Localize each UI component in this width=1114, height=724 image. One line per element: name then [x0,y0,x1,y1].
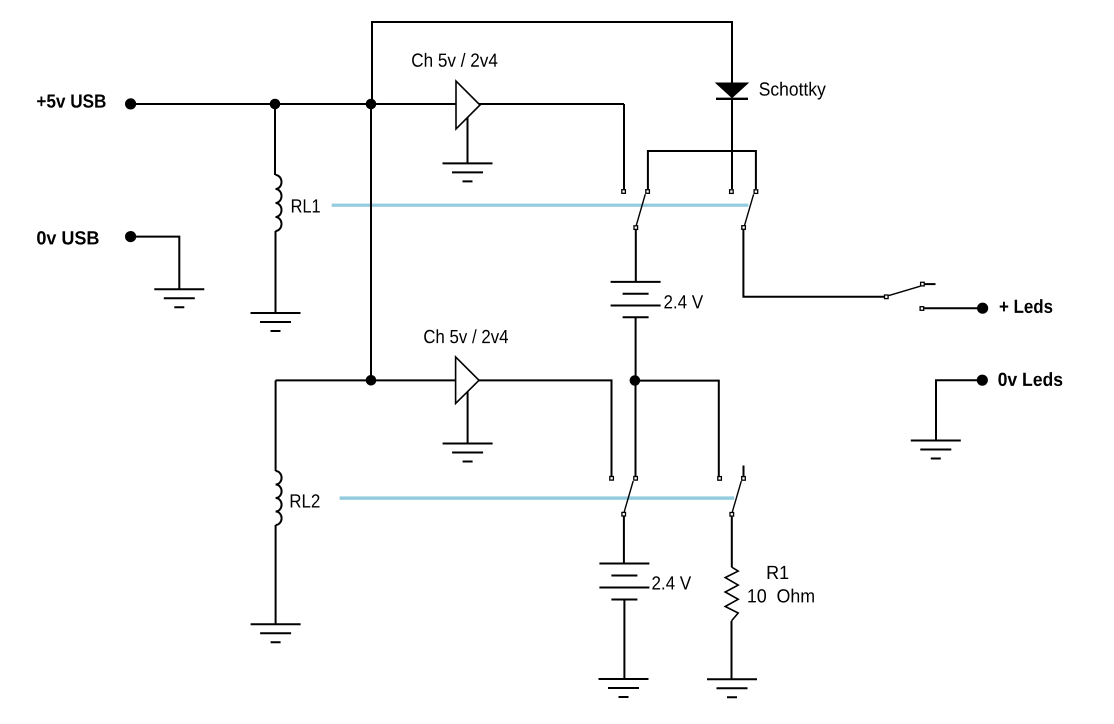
wire RL1 to ground [275,231,277,313]
wire 0v Leds to ground [936,380,977,440]
wire n-connector [648,151,756,189]
switch S3 contact left [610,477,614,481]
wire buffer2 output [479,380,612,476]
label Schottky [760,82,826,100]
wire buffer1 output corner down [623,104,625,189]
wire buffer2 input row [276,379,456,381]
wire switch S4 pivot to R1 [731,517,733,567]
label RL1 [292,199,320,212]
relay link line RL1 (blue) [332,204,749,207]
wire switch S4 stub up [743,466,745,477]
relay link line RL2 (blue) [340,496,735,499]
switch S2 contact right [754,190,758,194]
battery B2 2.4V [599,564,649,600]
switch S1 contact left [622,190,626,194]
battery B1 2.4V [611,282,661,317]
wire RL1 top drop [274,104,276,175]
ground (battery2) [599,679,649,697]
terminal 0v USB [125,231,136,242]
ground (buffer U2) [443,444,493,462]
junction node B [366,99,377,110]
switch S4 pivot [730,513,734,517]
junction node A [270,99,281,110]
wire top loop [372,22,732,104]
wire RL2 to ground [275,525,277,624]
inductor RL2 [276,471,282,525]
switch S5 pivot [885,295,889,299]
ground (R1) [707,679,757,697]
label Ch 5v / 2v4 [412,53,497,67]
junction node D [630,375,641,386]
resistor R1 zigzag [725,567,738,621]
switch S3 arm [624,481,633,512]
wire battery2 to ground [623,600,625,680]
label Ch 5v / 2v4 [424,329,508,343]
wire output switch stub [925,283,936,285]
wire R1 to ground [731,621,733,679]
switch S3 pivot [622,512,626,516]
switch S5 contact down [920,307,924,311]
wire switch S2 pivot down and right [743,230,886,297]
ground (0v Leds) [911,441,961,459]
switch S1 pivot [634,226,638,230]
switch S1 arm [636,194,645,225]
label RL2 [291,494,320,507]
terminal + Leds [977,303,988,314]
ground (buffer U1) [443,163,493,181]
label 2.4 V [664,295,703,308]
wire RL2 riser [275,380,277,471]
wire +5v USB row [131,103,624,105]
wire junction B right and down [635,381,719,476]
wire mid vertical bus [370,104,372,380]
label + Leds [1000,299,1053,313]
ground (RL1) [251,313,301,331]
switch S4 arm [732,481,741,512]
ground (0v USB) [154,289,204,307]
wire 0v USB to ground [131,237,180,290]
wire junction B down [635,381,637,477]
wire diode to switch [731,99,733,189]
switch S4 contact right [742,477,746,481]
switch S5 contact up [921,282,925,286]
label 0v Leds [998,372,1062,386]
label +5v USB [37,94,106,108]
wire switch S1 pivot to battery1 [635,230,637,282]
op-amp buffer U2 [456,357,479,404]
switch S5 arm (output) [889,286,921,295]
wire buffer1 ground stub [467,113,469,163]
wire to + Leds terminal [924,307,977,309]
label 10 Ohm [748,589,814,603]
switch S1 contact right [646,190,650,194]
switch S3 contact right [634,477,638,481]
terminal +5v USB [125,98,136,109]
inductor RL1 [276,175,282,231]
ground (RL2) [251,624,301,642]
label 0v USB [37,231,99,245]
switch S2 pivot [742,226,746,230]
label R1 [768,566,789,579]
terminal 0v Leds [977,375,988,386]
label 2.4 V [652,576,691,589]
diode D1 Schottky [716,83,748,99]
switch S4 contact left [718,477,722,481]
wire buffer2 ground stub [467,388,469,444]
junction node C [366,375,377,386]
switch S2 arm [745,194,754,225]
wire battery1 to junction B [635,317,637,380]
switch S2 contact left [730,190,734,194]
wire switch S3 pivot to battery2 [623,517,625,564]
op-amp buffer U1 [456,81,480,129]
